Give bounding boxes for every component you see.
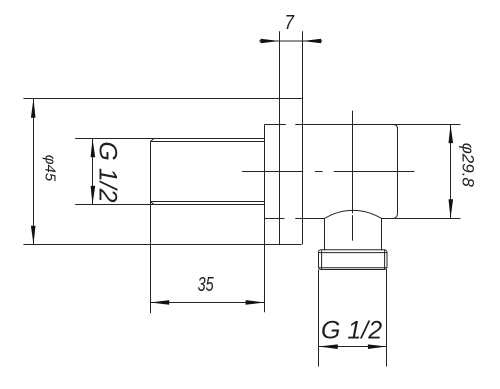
35 dimension line [151, 302, 265, 304]
outlet collar right chamfer line [384, 250, 386, 269]
left pipe top chamfer [151, 139, 154, 142]
svg-text:G 1/2: G 1/2 [94, 141, 122, 202]
thread crest bottom line of left pipe with G1/2 extension [75, 204, 264, 206]
phi29.8 bottom arrowhead [449, 199, 454, 218]
outlet thread collar outline [319, 250, 388, 270]
elbow junction arc [325, 210, 382, 218]
outlet collar lower thread line [319, 267, 388, 269]
G1/2 left dimension line [92, 139, 94, 205]
outlet pipe right outline / G1/2 right extension [386, 270, 388, 367]
outlet collar left chamfer line [321, 250, 323, 269]
35-dim right arrowhead [246, 300, 265, 305]
phi29.8 top arrowhead [449, 125, 454, 144]
outlet neck right outline [381, 219, 383, 251]
cylinder right end face with rounded corners [393, 125, 397, 219]
cylinder body top outline and phi29.8 top extension line [295, 124, 460, 126]
thread root top line of left pipe [151, 141, 265, 143]
G1/2 bottom left arrowhead [319, 344, 338, 349]
vertical centerline lower segment [352, 215, 354, 240]
cylinder body bottom outline middle segment [295, 218, 324, 220]
7-dim left arrowhead [261, 39, 280, 44]
horizontal centerline segment 1 [242, 171, 303, 173]
front disc face and 35-dim right extension line [264, 125, 266, 313]
svg-text:φ45: φ45 [42, 155, 59, 182]
G1/2 bottom right arrowhead [368, 344, 387, 349]
outlet collar upper thread line [319, 252, 388, 254]
phi29.8 dimension line [450, 125, 452, 219]
outlet neck left outline [324, 219, 326, 251]
cylinder body top outline left segment [265, 124, 286, 126]
flange left face / 7-dim left extension line [279, 31, 281, 244]
left pipe end face and 35-dim left extension line [150, 142, 152, 314]
cylinder body bottom right outline and phi29.8 bottom extension line [382, 218, 461, 220]
G1/2 left top arrowhead [91, 139, 96, 158]
phi45 bottom arrowhead [31, 226, 36, 245]
svg-text:G 1/2: G 1/2 [321, 317, 382, 345]
phi45 dimension line [33, 99, 35, 245]
flange bottom outline / phi45 bottom extension line [23, 244, 301, 246]
thread crest top line of left pipe with G1/2 extension [75, 138, 264, 140]
horizontal centerline short dash [315, 171, 323, 173]
35-dim left arrowhead [151, 300, 170, 305]
svg-text:φ29.8: φ29.8 [459, 143, 478, 188]
thread root bottom line of left pipe [151, 201, 265, 203]
cylinder body bottom outline left segment [265, 218, 285, 220]
7 dimension line [259, 40, 322, 42]
flange right face / 7-dim right extension line [302, 31, 304, 244]
phi45 top arrowhead [31, 99, 36, 118]
svg-text:7: 7 [284, 11, 294, 34]
horizontal centerline segment 2 [334, 171, 415, 173]
7-dim right arrowhead [303, 39, 322, 44]
G1/2 left bottom arrowhead [91, 186, 96, 205]
flange top outline / phi45 top extension line [23, 98, 302, 100]
outlet pipe left outline / G1/2 left extension [318, 270, 320, 367]
left pipe bottom chamfer [151, 202, 154, 205]
G1/2 bottom dimension line [319, 346, 387, 348]
vertical centerline upper segment [352, 111, 354, 214]
svg-text:35: 35 [198, 273, 214, 296]
